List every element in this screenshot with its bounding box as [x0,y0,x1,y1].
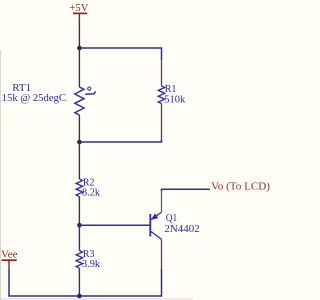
power +5V [69,3,88,21]
svg-text:2N4402: 2N4402 [164,224,199,235]
svg-text:15k @ 25degC: 15k @ 25degC [2,93,66,104]
wire node C to Q1 base [79,224,149,226]
thermistor t-degree mark [88,87,91,90]
svg-text:Q1: Q1 [166,213,177,224]
power Vee [1,250,18,269]
node C junction [77,223,82,228]
resistor R1 [158,59,164,141]
resistor R2 [76,142,82,225]
svg-text:R2: R2 [83,177,95,188]
node D junction (R3 to rail) [77,294,82,299]
wire Q1 emitter to Vo [162,189,211,191]
wire node A to R1 branch top [79,48,161,60]
wire R1 bottom to node B [79,140,161,142]
svg-text:Vo (To LCD): Vo (To LCD) [211,182,270,193]
transistor Q1 (PNP 2N4402) [150,191,161,271]
node B junction [77,140,82,145]
wire +5V to node A [78,22,80,49]
svg-text:3.9k: 3.9k [82,259,101,270]
wire Vee to bottom rail [9,268,162,296]
svg-text:510k: 510k [164,94,186,105]
sheet border (left edge) [0,50,2,300]
resistor R3 [76,225,82,296]
svg-text:8.2k: 8.2k [82,188,101,199]
node A junction [77,46,82,51]
svg-text:Vee: Vee [1,250,18,261]
thermistor RT1 [75,48,96,142]
